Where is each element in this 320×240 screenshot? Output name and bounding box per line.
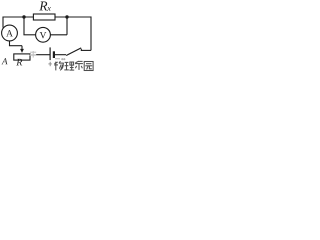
node left junction dot (22, 15, 25, 18)
label Rx (39, 2, 47, 11)
label A (rheostat terminal) (2, 58, 8, 64)
battery long plate (49, 47, 51, 60)
switch right contact (80, 49, 82, 51)
node right junction dot (65, 15, 68, 18)
wire rheostat to battery (36, 54, 50, 56)
rheostat R body (14, 54, 30, 60)
wire battery to switch (55, 54, 66, 56)
watermark char le (75, 61, 83, 70)
ammeter A (2, 25, 18, 41)
watermark char li (64, 62, 74, 70)
resistor Rx body (33, 14, 55, 20)
wire slider stem (21, 46, 23, 50)
watermark partial char (48, 62, 51, 66)
slider arrowhead (20, 49, 24, 53)
wire voltmeter branch right horizontal (50, 34, 67, 36)
wire top-left horizontal (3, 16, 33, 18)
switch blade (66, 48, 81, 56)
watermark stray marks above text row (55, 58, 65, 60)
watermark faint blob near rheostat (30, 51, 37, 58)
voltmeter V (36, 27, 51, 42)
wire rheostat to battery (faded left) (30, 54, 36, 56)
wire top-right horizontal (55, 16, 91, 18)
watermark char wu (54, 61, 64, 70)
wire ammeter to rheostat: down (9, 41, 11, 46)
wire voltmeter branch left horizontal (23, 34, 35, 36)
wire left vertical to ammeter (2, 17, 4, 28)
label R (rheostat) (16, 59, 22, 66)
wire right column vertical (90, 16, 92, 50)
battery short plate (53, 51, 55, 58)
wire voltmeter branch left vertical (23, 17, 25, 35)
watermark char yuan (84, 62, 93, 71)
wire switch to right column (81, 49, 91, 51)
wire ammeter to rheostat: horizontal (9, 45, 22, 47)
wire voltmeter branch right vertical (66, 17, 68, 35)
